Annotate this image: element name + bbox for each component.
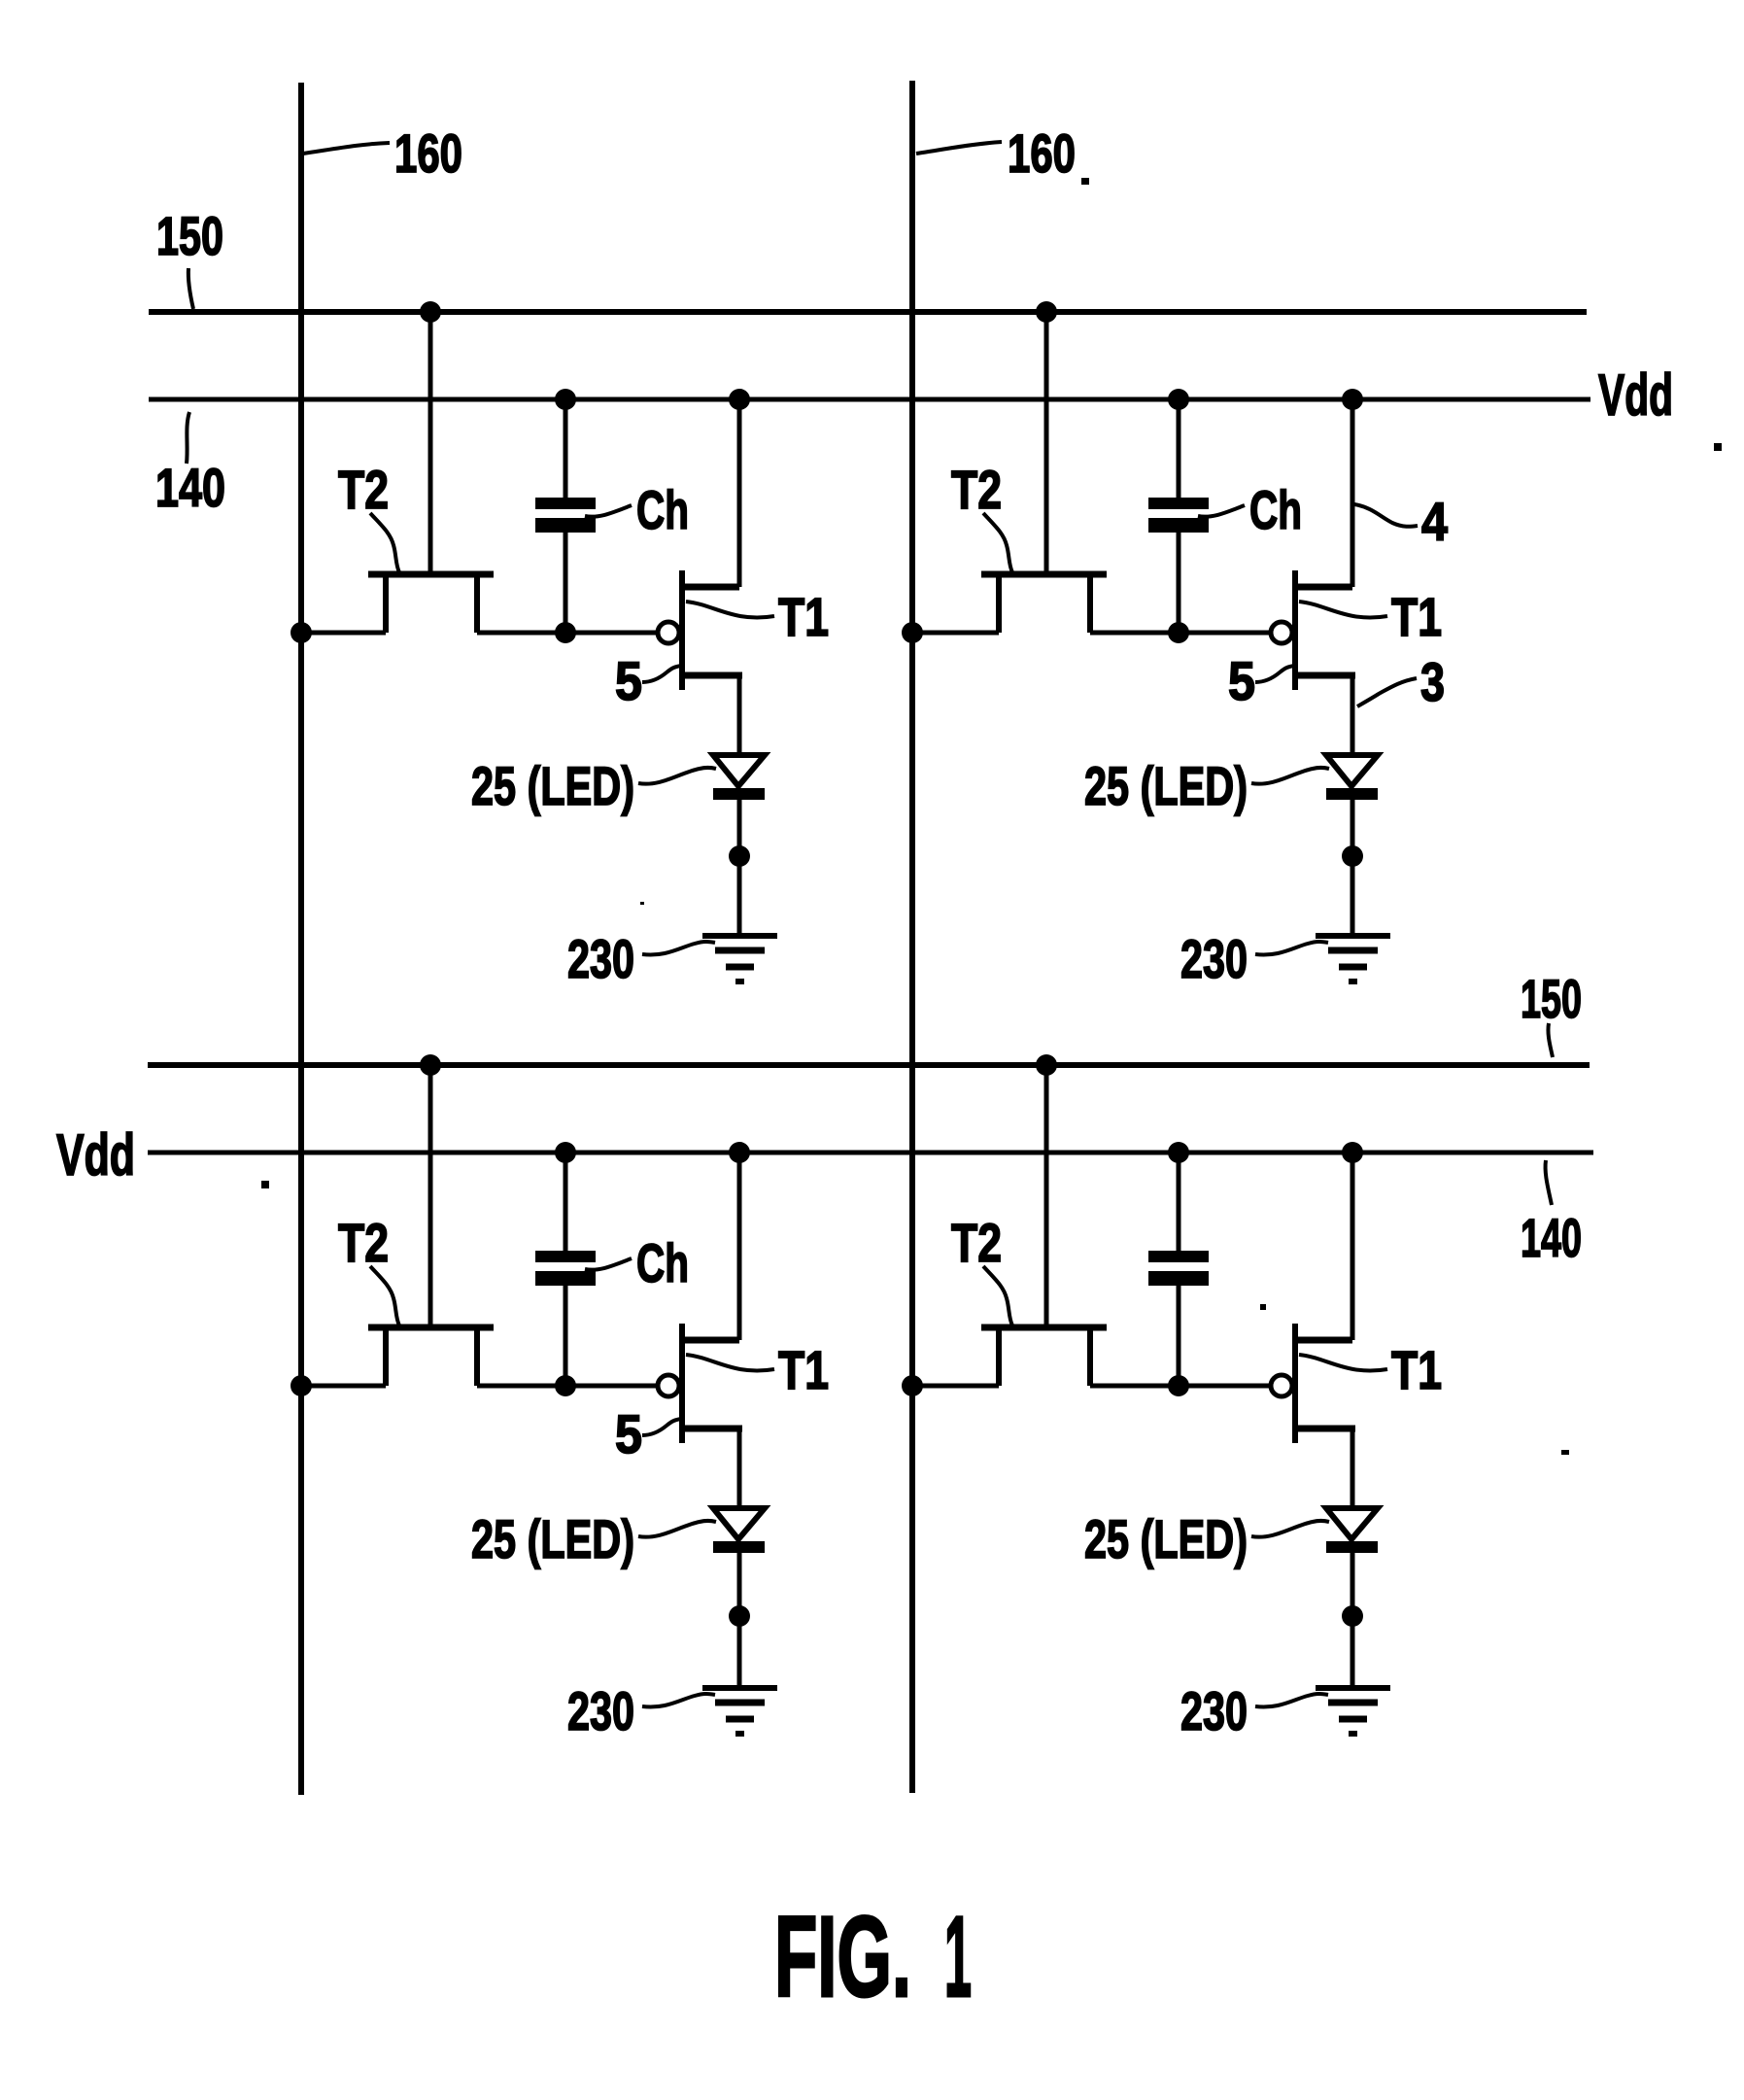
svg-text:Ch: Ch xyxy=(1249,479,1302,540)
ground 230 bar 1 (row2 right) xyxy=(1316,1685,1390,1691)
transistor T1 source stub (row1 right) xyxy=(1298,672,1355,679)
junction node at capacitor bottom (row1 right) xyxy=(1168,622,1189,643)
transistor T2 drain electrode (row2 left) xyxy=(474,1329,480,1386)
junction on select line at T2 gate (row1 left) xyxy=(420,301,441,323)
transistor T2 drain electrode (row1 right) xyxy=(1087,576,1093,633)
wire: data line to T2 source (row1 right) xyxy=(912,631,999,636)
wire: T2 drain to T1 gate node (row2 left) xyxy=(477,1384,657,1389)
svg-text:3: 3 xyxy=(1420,651,1445,712)
LED 25 anode triangle (row2 left) xyxy=(713,1508,765,1539)
ground 230 bar 2 (row2 right) xyxy=(1328,1700,1378,1706)
speck row2 left xyxy=(261,1181,269,1188)
svg-text:150: 150 xyxy=(1521,968,1582,1029)
transistor T1 gate bubble (p-type) (row2 left) xyxy=(658,1375,679,1396)
label Ch leader xyxy=(585,1258,632,1270)
wire: gate line from select 150 to T2 (row2 left) xyxy=(428,1065,433,1325)
ground 230 bar 4 (row2 right) xyxy=(1349,1731,1357,1737)
LED 25 cathode bar (row1 left) xyxy=(713,788,765,800)
junction on select line at T2 gate (row2 left) xyxy=(420,1054,441,1076)
transistor T2 gate bar (row1 left) xyxy=(368,571,494,578)
wire: T1 source to LED anode (row1 left) xyxy=(737,675,742,755)
svg-text:25 (LED): 25 (LED) xyxy=(1084,1508,1248,1569)
transistor T2 source electrode (row1 left) xyxy=(383,576,389,633)
svg-text:T2: T2 xyxy=(338,1212,389,1273)
svg-text:4: 4 xyxy=(1421,491,1448,552)
label 25 (LED) leader xyxy=(638,1521,716,1537)
wire: data line to T2 source (row2 left) xyxy=(301,1384,386,1389)
ground 230 bar 4 (row1 left) xyxy=(735,979,744,984)
label 140 (top-left) leader xyxy=(187,412,189,464)
transistor T1 drain stub (row2 right) xyxy=(1298,1337,1352,1344)
wire: data line to T2 source (row2 right) xyxy=(912,1384,999,1389)
capacitor Ch bottom plate (row2 right) xyxy=(1148,1271,1209,1286)
ground 230 bar 3 (row1 left) xyxy=(726,964,754,971)
wire: gate line from select 150 to T2 (row1 left) xyxy=(428,312,433,571)
label 230 leader xyxy=(1255,1694,1328,1707)
svg-text:Ch: Ch xyxy=(636,479,689,540)
wire: capacitor Ch to gate node (row2 left) xyxy=(564,1286,568,1386)
junction on data line (row1 left) xyxy=(291,622,312,643)
speck row1 left near ground xyxy=(640,902,644,905)
transistor T2 gate bar (row1 right) xyxy=(981,571,1107,578)
junction on Vdd at T1 drain (row2 left) xyxy=(729,1142,750,1163)
label 230 leader xyxy=(642,1694,715,1707)
junction on select line at T2 gate (row2 right) xyxy=(1036,1054,1057,1076)
svg-text:140: 140 xyxy=(1521,1207,1582,1268)
LED 25 cathode bar (row2 right) xyxy=(1326,1541,1378,1553)
label T1 leader xyxy=(1299,602,1387,618)
wire: T2 drain to T1 gate node (row1 left) xyxy=(477,631,657,636)
wire: LED cathode to ground (row2 left) xyxy=(737,1553,742,1688)
transistor T2 source electrode (row2 right) xyxy=(996,1329,1002,1386)
capacitor Ch bottom plate (row1 left) xyxy=(535,518,596,533)
transistor T1 channel bar (row2 right) xyxy=(1292,1324,1298,1443)
svg-text:T2: T2 xyxy=(951,459,1002,520)
ground 230 bar 1 (row1 left) xyxy=(702,933,777,939)
wire: capacitor Ch to gate node (row1 left) xyxy=(564,533,568,633)
svg-text:230: 230 xyxy=(567,1680,634,1741)
wire: Vdd to capacitor Ch (row2 right) xyxy=(1177,1153,1181,1251)
label T2 leader xyxy=(983,513,1012,572)
capacitor Ch top plate (row1 left) xyxy=(535,498,596,509)
wire: capacitor Ch to gate node (row2 right) xyxy=(1177,1286,1181,1386)
label 160 (right) leader xyxy=(916,142,1002,154)
wire: power line Vdd 140 (row 1) xyxy=(149,397,1590,402)
label 3 leader (node 3, T1 source wire) xyxy=(1357,678,1417,706)
transistor T1 channel bar (row1 right) xyxy=(1292,570,1298,690)
label 150 (row2 right) leader xyxy=(1548,1023,1553,1057)
svg-text:T1: T1 xyxy=(1391,1339,1442,1400)
ground 230 bar 4 (row2 left) xyxy=(735,1731,744,1737)
capacitor Ch bottom plate (row2 left) xyxy=(535,1271,596,1286)
label T2 leader xyxy=(370,513,399,572)
junction on Vdd at capacitor (row2 left) xyxy=(555,1142,576,1163)
label T1 leader xyxy=(1299,1355,1387,1371)
svg-text:5: 5 xyxy=(615,1403,642,1464)
transistor T2 source electrode (row2 left) xyxy=(383,1329,389,1386)
junction on LED-ground wire (row1 right) xyxy=(1342,845,1363,867)
transistor T1 source stub (row2 left) xyxy=(685,1426,742,1432)
ground 230 bar 1 (row2 left) xyxy=(702,1685,777,1691)
label 230 leader xyxy=(1255,942,1328,955)
transistor T1 gate bubble (p-type) (row2 right) xyxy=(1271,1375,1292,1396)
junction on LED-ground wire (row1 left) xyxy=(729,845,750,867)
label 25 (LED) leader xyxy=(638,768,716,784)
transistor T2 source electrode (row1 right) xyxy=(996,576,1002,633)
svg-text:Ch: Ch xyxy=(636,1232,689,1293)
ground 230 bar 3 (row2 right) xyxy=(1339,1716,1367,1723)
junction on Vdd at T1 drain (row1 left) xyxy=(729,389,750,410)
capacitor Ch top plate (row2 left) xyxy=(535,1251,596,1262)
ground 230 bar 3 (row2 left) xyxy=(726,1716,754,1723)
wire: Vdd to T1 drain (row2 right) xyxy=(1351,1153,1355,1340)
speck after right 160 xyxy=(1081,178,1089,185)
label T1 leader xyxy=(686,1355,774,1371)
svg-text:T1: T1 xyxy=(778,586,829,647)
LED 25 anode triangle (row1 right) xyxy=(1326,755,1378,786)
transistor T2 gate bar (row2 right) xyxy=(981,1325,1107,1331)
speck row2 right xyxy=(1561,1450,1569,1455)
wire: power line Vdd 140 (row 2) xyxy=(148,1151,1593,1155)
wire: T1 source to LED anode (row2 right) xyxy=(1351,1429,1355,1508)
transistor T1 drain stub (row1 right) xyxy=(1298,584,1352,591)
svg-text:T2: T2 xyxy=(338,459,389,520)
LED 25 cathode bar (row2 left) xyxy=(713,1541,765,1553)
svg-text:Vdd: Vdd xyxy=(1598,362,1673,428)
wire: Vdd to capacitor Ch (row1 left) xyxy=(564,399,568,498)
svg-text:5: 5 xyxy=(615,650,642,711)
svg-text:5: 5 xyxy=(1228,650,1255,711)
svg-text:160: 160 xyxy=(394,122,462,184)
svg-text:25 (LED): 25 (LED) xyxy=(1084,755,1248,816)
transistor T1 drain stub (row1 left) xyxy=(685,584,739,591)
wire: LED cathode to ground (row1 right) xyxy=(1351,800,1355,936)
wire: gate line from select 150 to T2 (row1 right) xyxy=(1044,312,1049,571)
transistor T1 channel bar (row2 left) xyxy=(679,1324,685,1443)
transistor T1 channel bar (row1 left) xyxy=(679,570,685,690)
svg-text:T1: T1 xyxy=(1391,586,1442,647)
junction on LED-ground wire (row2 left) xyxy=(729,1605,750,1627)
wire: gate line from select 150 to T2 (row2 right) xyxy=(1044,1065,1049,1325)
speck row2 mid xyxy=(1260,1304,1266,1310)
capacitor Ch top plate (row1 right) xyxy=(1148,498,1209,509)
svg-text:230: 230 xyxy=(567,928,634,989)
svg-text:150: 150 xyxy=(156,205,223,266)
junction node at capacitor bottom (row2 left) xyxy=(555,1375,576,1396)
junction on Vdd at capacitor (row1 left) xyxy=(555,389,576,410)
svg-text:230: 230 xyxy=(1180,1680,1248,1741)
LED 25 anode triangle (row2 right) xyxy=(1326,1508,1378,1539)
label 5 leader xyxy=(642,1419,681,1435)
svg-text:25 (LED): 25 (LED) xyxy=(471,1508,634,1569)
wire: capacitor Ch to gate node (row1 right) xyxy=(1177,533,1181,633)
transistor T2 gate bar (row2 left) xyxy=(368,1325,494,1331)
capacitor Ch bottom plate (row1 right) xyxy=(1148,518,1209,533)
label 5 leader xyxy=(1255,666,1294,682)
wire: LED cathode to ground (row1 left) xyxy=(737,800,742,936)
label T2 leader xyxy=(983,1266,1012,1325)
junction on data line (row2 right) xyxy=(902,1375,923,1396)
ground 230 bar 2 (row1 left) xyxy=(715,947,765,954)
transistor T1 source stub (row1 left) xyxy=(685,672,742,679)
junction node at capacitor bottom (row2 right) xyxy=(1168,1375,1189,1396)
transistor T2 drain electrode (row2 right) xyxy=(1087,1329,1093,1386)
ground 230 bar 1 (row1 right) xyxy=(1316,933,1390,939)
svg-text:230: 230 xyxy=(1180,928,1248,989)
wire: data line 160 (left column) xyxy=(298,83,304,1795)
wire: T2 drain to T1 gate node (row2 right) xyxy=(1090,1384,1270,1389)
transistor T1 gate bubble (p-type) (row1 right) xyxy=(1271,622,1292,643)
ground 230 bar 3 (row1 right) xyxy=(1339,964,1367,971)
wire: select line 150 (row 1) xyxy=(149,309,1587,315)
svg-text:1: 1 xyxy=(944,1893,972,2021)
junction on LED-ground wire (row2 right) xyxy=(1342,1605,1363,1627)
transistor T1 drain stub (row2 left) xyxy=(685,1337,739,1344)
wire: T2 drain to T1 gate node (row1 right) xyxy=(1090,631,1270,636)
label T2 leader xyxy=(370,1266,399,1325)
wire: Vdd to T1 drain (row2 left) xyxy=(737,1153,742,1340)
svg-text:FIG.: FIG. xyxy=(774,1893,911,2021)
junction node at capacitor bottom (row1 left) xyxy=(555,622,576,643)
junction on Vdd at capacitor (row1 right) xyxy=(1168,389,1189,410)
label 160 (left) leader xyxy=(303,143,390,154)
junction on select line at T2 gate (row1 right) xyxy=(1036,301,1057,323)
label 4 leader (node 4, T1 drain wire) xyxy=(1354,504,1418,527)
svg-text:T1: T1 xyxy=(778,1339,829,1400)
wire: Vdd to capacitor Ch (row2 left) xyxy=(564,1153,568,1251)
junction on Vdd at T1 drain (row2 right) xyxy=(1342,1142,1363,1163)
ground 230 bar 4 (row1 right) xyxy=(1349,979,1357,984)
label T1 leader xyxy=(686,602,774,618)
wire: T1 source to LED anode (row1 right) xyxy=(1351,675,1355,755)
wire: data line 160 (right column) xyxy=(909,81,915,1793)
transistor T2 drain electrode (row1 left) xyxy=(474,576,480,633)
label 150 (top-left) leader xyxy=(188,268,193,309)
junction on data line (row1 right) xyxy=(902,622,923,643)
label Ch leader xyxy=(1198,505,1245,517)
label 140 (row2 right) leader xyxy=(1546,1160,1552,1205)
wire: T1 source to LED anode (row2 left) xyxy=(737,1429,742,1508)
svg-text:T2: T2 xyxy=(951,1212,1002,1273)
wire: Vdd to T1 drain (row1 left) xyxy=(737,399,742,587)
ground 230 bar 2 (row1 right) xyxy=(1328,947,1378,954)
wire: LED cathode to ground (row2 right) xyxy=(1351,1553,1355,1688)
wire: data line to T2 source (row1 left) xyxy=(301,631,386,636)
label 25 (LED) leader xyxy=(1251,768,1329,784)
ground 230 bar 2 (row2 left) xyxy=(715,1700,765,1706)
junction on Vdd at capacitor (row2 right) xyxy=(1168,1142,1189,1163)
capacitor Ch top plate (row2 right) xyxy=(1148,1251,1209,1262)
LED 25 cathode bar (row1 right) xyxy=(1326,788,1378,800)
transistor T1 source stub (row2 right) xyxy=(1298,1426,1355,1432)
wire: Vdd to T1 drain (row1 right) xyxy=(1351,399,1355,587)
label 25 (LED) leader xyxy=(1251,1521,1329,1537)
svg-text:Vdd: Vdd xyxy=(56,1122,135,1188)
label Ch leader xyxy=(585,505,632,517)
wire: Vdd to capacitor Ch (row1 right) xyxy=(1177,399,1181,498)
transistor T1 gate bubble (p-type) (row1 left) xyxy=(658,622,679,643)
wire: select line 150 (row 2) xyxy=(148,1062,1590,1068)
LED 25 anode triangle (row1 left) xyxy=(713,755,765,786)
svg-text:25 (LED): 25 (LED) xyxy=(471,755,634,816)
label 5 leader xyxy=(642,666,681,682)
junction on data line (row2 left) xyxy=(291,1375,312,1396)
junction on Vdd at T1 drain (row1 right) xyxy=(1342,389,1363,410)
svg-text:160: 160 xyxy=(1008,122,1076,184)
speck near right margin xyxy=(1714,443,1722,451)
label 230 leader xyxy=(642,942,715,955)
svg-text:140: 140 xyxy=(155,457,225,518)
